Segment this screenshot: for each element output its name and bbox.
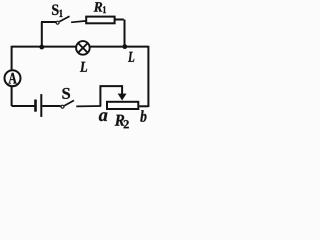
label S1 [52, 5, 63, 18]
lamp L [76, 41, 90, 55]
switch S [61, 100, 101, 108]
wire battery to switch S [42, 105, 61, 107]
ammeter A [5, 70, 21, 86]
wire right vertical [147, 46, 149, 107]
wire rheostat wiper feed [100, 86, 122, 106]
wire left vertical upper (rail to ammeter) [11, 46, 13, 71]
wire left vertical lower (ammeter to bottom corner) [12, 86, 35, 106]
rheostat wiper arrowhead [118, 94, 126, 101]
switch S1 [56, 16, 86, 24]
wire R1 to right junction [115, 20, 125, 48]
node right junction [123, 44, 128, 49]
label S (bottom switch) [62, 88, 70, 99]
rheostat R2 body [107, 102, 138, 109]
wire middle rail left (left corner to lamp) [12, 46, 77, 48]
label R2 [115, 115, 129, 129]
wire rheostat b-end to right vertical [139, 105, 148, 107]
node left junction [40, 45, 45, 50]
wire branch left riser [41, 22, 56, 48]
label L (right node) [128, 52, 134, 62]
wire middle rail right (lamp to right corner) [89, 46, 148, 48]
label a [99, 112, 108, 121]
battery cell [36, 94, 42, 117]
label b [140, 110, 146, 121]
label L (lamp) [80, 62, 87, 72]
resistor R1 body [86, 17, 114, 24]
label R1 [94, 2, 106, 13]
